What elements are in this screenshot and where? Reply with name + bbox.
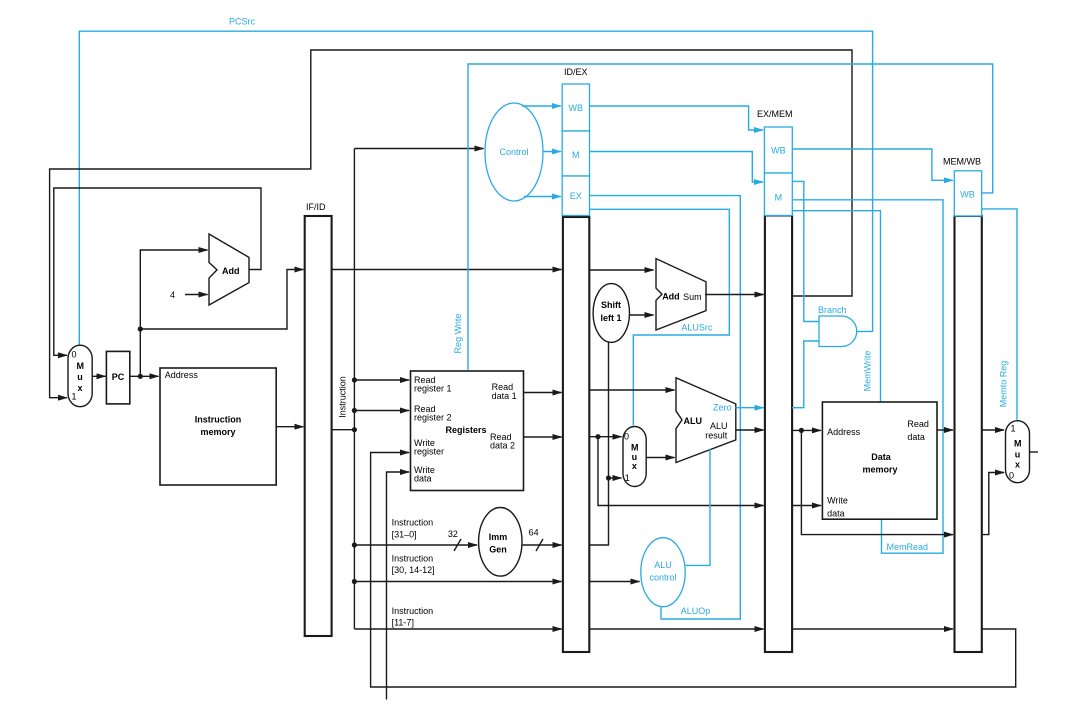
wire PC value to IF/ID (140, 270, 303, 330)
svg-text:Gen: Gen (489, 545, 507, 555)
wire ID/EX WB to EX/MEM WB (590, 106, 764, 130)
wire ALU control to ALU (685, 449, 710, 566)
svg-text:M: M (775, 193, 783, 203)
wire IF/ID instruction output (332, 429, 355, 431)
memory block Data memory (822, 402, 937, 519)
wire write data line to Registers (387, 472, 410, 700)
svg-text:x: x (1015, 460, 1020, 470)
wire ALUOp from ID/EX EX to ALU control (590, 196, 741, 619)
wire Control to ID/EX EX (524, 196, 561, 198)
svg-text:1: 1 (1010, 424, 1015, 434)
wire immediate to ALU mux 1 (609, 477, 622, 479)
wire write register number return path MEM/WB to Registers (371, 453, 1016, 688)
control box ID/EX WB (562, 84, 589, 131)
memory block Instruction memory (160, 368, 276, 485)
wire ID/EX read data 2 to ALU mux 0 (589, 436, 621, 438)
slash 64-bit width tick (536, 539, 543, 551)
node junction PC output (138, 374, 143, 379)
adder Add (PC+4) (209, 234, 249, 305)
node junction read data 2 (595, 434, 600, 439)
svg-text:Zero: Zero (713, 403, 732, 413)
wire read data 2 down to EX/MEM write data (598, 437, 764, 506)
wire instruction to Read register 1 (354, 379, 409, 381)
control unit Control (485, 103, 543, 201)
register file Registers (411, 371, 524, 491)
wire Imm Gen output to ID/EX (522, 544, 562, 546)
svg-text:M: M (1014, 439, 1022, 449)
svg-text:Instruction: Instruction (392, 518, 434, 528)
wire branch target from EX/MEM back to PC mux input 1 (50, 50, 852, 398)
svg-text:x: x (77, 383, 82, 393)
control box ID/EX M (562, 131, 589, 176)
pipeline register EX/MEM (765, 216, 792, 653)
wire ALU result to EX/MEM (736, 429, 764, 431)
svg-text:data 2: data 2 (490, 441, 515, 451)
wire data memory read data to MEM/WB (937, 429, 953, 431)
control box MEM/WB WB (954, 171, 981, 216)
node junction ALU result (799, 428, 804, 433)
wire mux M1 output to PC (92, 375, 105, 377)
wire ID/EX PC to Add Sum (589, 269, 653, 271)
wire Control to ID/EX M (543, 151, 561, 153)
svg-text:Read: Read (907, 419, 929, 429)
control box ID/EX EX (562, 176, 589, 216)
wire ALU result bypass to MEM/WB (801, 430, 953, 534)
wire ALUSrc mux to ALU (646, 457, 674, 459)
svg-text:0: 0 (1009, 471, 1014, 481)
svg-text:Instruction: Instruction (338, 376, 348, 418)
wire ID/EX read data 1 to ALU (589, 389, 674, 391)
wire instruction [30,14-12] to ID/EX (354, 581, 561, 583)
svg-text:MemWrite: MemWrite (863, 351, 873, 392)
svg-text:1: 1 (625, 473, 630, 483)
svg-text:data: data (907, 432, 925, 442)
svg-text:Write: Write (827, 496, 848, 506)
svg-text:[11-7]: [11-7] (392, 618, 414, 628)
control box EX/MEM M (764, 173, 792, 216)
wire Control to ID/EX WB (522, 105, 561, 107)
svg-text:Add: Add (662, 292, 680, 302)
svg-text:IF/ID: IF/ID (306, 202, 326, 212)
wire EX/MEM WB to MEM/WB WB (792, 149, 953, 180)
node junction instruction bus taps (352, 377, 357, 382)
wire instruction to Control (354, 148, 483, 150)
svg-text:ALU: ALU (654, 560, 672, 570)
wire instruction [31-0] to Imm Gen (354, 544, 477, 546)
svg-text:Imm: Imm (489, 532, 508, 542)
svg-text:MEM/WB: MEM/WB (943, 157, 981, 167)
svg-text:ALU: ALU (684, 416, 703, 426)
wire Add Sum to EX/MEM (705, 294, 764, 296)
svg-text:result: result (705, 431, 728, 441)
svg-text:Memto Reg: Memto Reg (999, 361, 1009, 408)
slash 32-bit width tick (454, 539, 461, 551)
node junction PC tap (138, 326, 143, 331)
wire ID/EX instr[30,14-12] to ALU control (589, 581, 639, 583)
wire instruction vertical bus (353, 149, 355, 630)
wire PC output to instruction memory (130, 375, 159, 377)
wire EX/MEM instr[11-7] to MEM/WB (792, 628, 953, 630)
pipeline register IF/ID (305, 216, 332, 636)
wire Read data 1 to ID/EX (524, 392, 562, 394)
svg-text:u: u (77, 372, 83, 382)
svg-text:4: 4 (170, 290, 175, 300)
node junction immediate (606, 475, 611, 480)
wire RegWrite from MEM/WB WB to Registers (468, 64, 993, 370)
register PC (106, 351, 129, 404)
svg-text:MemRead: MemRead (887, 542, 929, 552)
svg-text:register 1: register 1 (414, 384, 452, 394)
sign extender Imm Gen (479, 508, 522, 577)
shifter Shift left 1 (593, 284, 629, 343)
svg-text:[30, 14-12]: [30, 14-12] (392, 565, 435, 575)
svg-text:Address: Address (827, 427, 861, 437)
wire Zero flag to EX/MEM (736, 407, 764, 409)
alu ALU (676, 378, 736, 463)
wire ID/EX instr[11-7] to EX/MEM (589, 628, 763, 630)
svg-text:WB: WB (960, 190, 975, 200)
svg-text:register: register (414, 447, 444, 457)
wire instruction to Read register 2 (354, 410, 409, 412)
wire ID/EX immediate to shift left 1 and mux (589, 342, 608, 545)
wire MemtoReg from MEM/WB WB to result mux select (982, 209, 1017, 420)
wire MemWrite from EX/MEM M to data memory (792, 211, 880, 402)
svg-text:memory: memory (862, 465, 897, 475)
wire Zero from EX/MEM to AND gate (792, 341, 819, 408)
wire Branch signal from EX/MEM M to AND gate (792, 181, 819, 321)
wire MEM/WB read data to result mux input 1 (982, 429, 1004, 431)
svg-text:WB: WB (771, 146, 786, 156)
svg-text:M: M (631, 443, 639, 453)
and gate Branch AND (819, 316, 857, 347)
svg-text:32: 32 (448, 529, 458, 539)
svg-text:64: 64 (529, 528, 539, 538)
svg-text:Address: Address (165, 370, 199, 380)
svg-text:Instruction: Instruction (195, 415, 242, 425)
mux M1 (PC source mux) (68, 345, 92, 407)
svg-text:WB: WB (569, 103, 584, 113)
svg-text:Reg Write: Reg Write (453, 314, 463, 354)
wire Read data 2 to ID/EX (524, 436, 562, 438)
alu control unit ALU control (641, 538, 685, 607)
svg-text:M: M (77, 361, 85, 371)
svg-text:memory: memory (200, 427, 235, 437)
wire Shift left 1 to Add Sum (630, 314, 654, 316)
svg-text:control: control (649, 573, 676, 583)
wire EX/MEM ALU result to data memory address (792, 429, 821, 431)
svg-text:Shift: Shift (601, 300, 621, 310)
svg-text:Add: Add (222, 266, 240, 276)
wire MEM/WB ALU result to result mux input 0 (982, 473, 1004, 535)
svg-text:ALUOp: ALUOp (681, 606, 711, 616)
svg-text:data: data (414, 474, 432, 484)
control box EX/MEM WB (764, 127, 792, 173)
wire EX/MEM write data to data memory (792, 505, 821, 507)
svg-text:0: 0 (624, 432, 629, 442)
svg-text:register 2: register 2 (414, 413, 452, 423)
pipeline register MEM/WB (955, 216, 982, 652)
svg-text:1: 1 (71, 392, 76, 402)
svg-text:PCSrc: PCSrc (229, 17, 256, 27)
wire ALUSrc from ID/EX EX to ALU mux select (590, 209, 730, 425)
svg-text:EX/MEM: EX/MEM (757, 109, 793, 119)
svg-text:M: M (572, 150, 580, 160)
svg-text:data: data (827, 509, 845, 519)
svg-text:Registers: Registers (445, 425, 486, 435)
wire IF/ID PC out to ID/EX (332, 269, 562, 271)
svg-text:PC: PC (112, 372, 125, 382)
svg-text:Sum: Sum (683, 292, 702, 302)
wire MemRead from EX/MEM M to data memory (792, 200, 943, 553)
wire ID/EX M to EX/MEM M (590, 152, 764, 183)
svg-text:ID/EX: ID/EX (564, 67, 588, 77)
svg-text:u: u (1015, 450, 1021, 460)
wire constant 4 to Add (185, 294, 208, 296)
wire result mux output stub (1030, 451, 1039, 453)
mux M3 (write-back result mux) (1006, 421, 1030, 483)
svg-text:Instruction: Instruction (392, 554, 434, 564)
svg-text:Control: Control (499, 147, 528, 157)
svg-text:ALU: ALU (710, 421, 728, 431)
svg-text:Branch: Branch (818, 305, 847, 315)
svg-text:ALUSrc: ALUSrc (681, 323, 713, 333)
mux M2 (ALUSrc mux) (623, 427, 646, 487)
wire Add PC+4 output to PC mux input 0 (54, 188, 261, 355)
svg-text:EX: EX (570, 191, 582, 201)
adder Add Sum (branch target) (656, 259, 706, 330)
pipeline register ID/EX (563, 217, 589, 652)
wire PC value up to Add input (140, 250, 207, 376)
wire instruction [11-7] to ID/EX (354, 628, 561, 630)
svg-text:0: 0 (71, 350, 76, 360)
svg-text:data 1: data 1 (492, 391, 517, 401)
wire instruction memory to IF/ID (276, 426, 303, 428)
svg-text:Data: Data (871, 452, 892, 462)
svg-text:x: x (632, 461, 637, 471)
svg-text:Instruction: Instruction (392, 606, 434, 616)
wire PCSrc from branch AND gate to PC mux select (79, 31, 872, 344)
svg-text:[31–0]: [31–0] (392, 530, 417, 540)
svg-text:left 1: left 1 (600, 313, 621, 323)
